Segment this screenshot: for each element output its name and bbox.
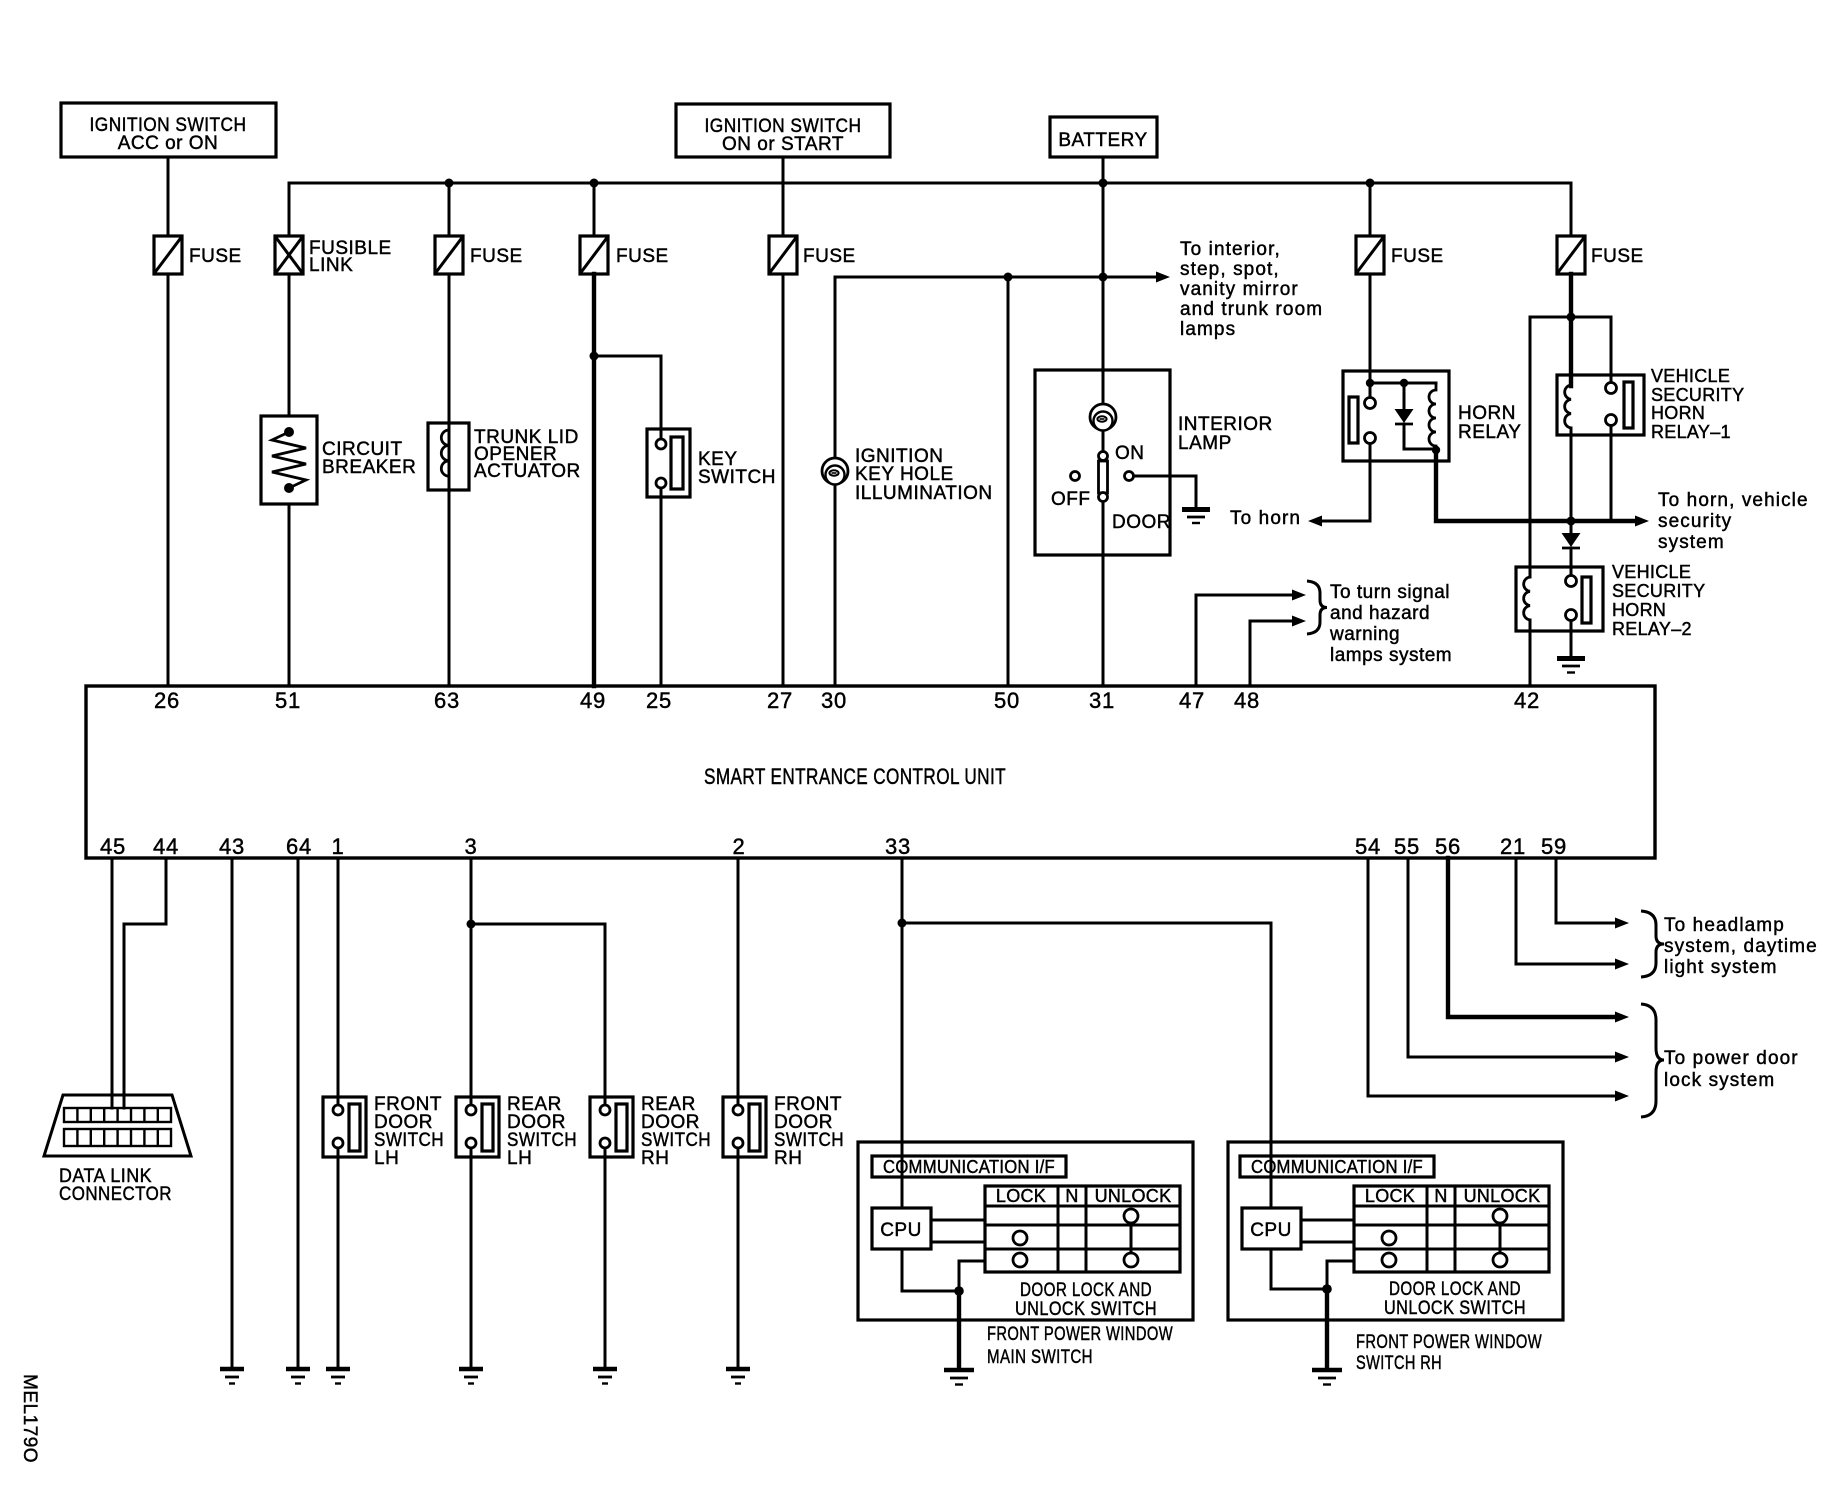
- door lock and unlock switch table (RH): [1354, 1186, 1549, 1319]
- svg-text:step, spot,: step, spot,: [1180, 259, 1280, 280]
- box FRONT POWER WINDOW SWITCH RH: [1228, 1142, 1563, 1320]
- svg-text:BREAKER: BREAKER: [322, 457, 416, 478]
- svg-text:CPU: CPU: [1250, 1220, 1292, 1241]
- svg-text:ON or START: ON or START: [722, 134, 844, 155]
- svg-text:FRONT POWER WINDOW: FRONT POWER WINDOW: [1356, 1332, 1542, 1353]
- wire battery to bus: [1102, 157, 1105, 183]
- fuse F2 (63): [435, 236, 523, 274]
- svg-text:47: 47: [1179, 688, 1205, 713]
- svg-text:45: 45: [100, 834, 126, 859]
- svg-text:27: 27: [767, 688, 793, 713]
- wire bus to horn relay fuse: [1369, 183, 1372, 236]
- svg-text:RELAY–2: RELAY–2: [1612, 619, 1692, 639]
- wire pin 56 to power door arrow: [1448, 858, 1616, 1017]
- svg-text:56: 56: [1435, 834, 1461, 859]
- front door switch LH: [323, 1094, 444, 1169]
- svg-text:HORN: HORN: [1458, 403, 1516, 424]
- wire fuse F3 to pin 49: [592, 274, 596, 686]
- brace headlamp: [1641, 911, 1664, 977]
- svg-text:48: 48: [1234, 688, 1260, 713]
- label to turn signal and hazard warning lamps system: [1329, 582, 1452, 666]
- svg-text:33: 33: [885, 834, 911, 859]
- wire horn relay coil to junction: [1436, 450, 1636, 521]
- svg-text:security: security: [1658, 511, 1732, 532]
- wire key switch to pin 25: [660, 488, 663, 686]
- wire pin 1 to front door switch LH: [337, 858, 340, 1105]
- svg-text:FUSE: FUSE: [803, 246, 856, 267]
- svg-text:ON: ON: [1115, 443, 1145, 464]
- svg-text:HORN: HORN: [1651, 403, 1705, 423]
- wire bus to fuse49: [593, 183, 596, 236]
- svg-text:LINK: LINK: [309, 255, 353, 276]
- wire front door switch RH to ground: [737, 1148, 740, 1368]
- label front power window main switch: [987, 1324, 1173, 1368]
- svg-text:DOOR LOCK AND: DOOR LOCK AND: [1389, 1279, 1521, 1300]
- label to interior step spot lamps: [1180, 239, 1323, 340]
- svg-text:RH: RH: [641, 1148, 669, 1169]
- wire bus corner to security fuse: [1570, 183, 1573, 236]
- wire fusible link to circuit breaker: [288, 274, 291, 416]
- svg-text:ILLUMINATION: ILLUMINATION: [855, 483, 993, 504]
- svg-text:MEL179O: MEL179O: [19, 1374, 40, 1463]
- svg-text:RH: RH: [774, 1148, 802, 1169]
- brace turn signal: [1307, 581, 1327, 634]
- svg-text:44: 44: [153, 834, 179, 859]
- arrow headlamp 2: [1615, 959, 1629, 970]
- CPU box (switch RH): [1242, 1208, 1301, 1249]
- svg-text:FUSE: FUSE: [1591, 246, 1644, 267]
- relay VEHICLE SECURITY HORN RELAY-1: [1557, 366, 1744, 442]
- svg-text:ACC or ON: ACC or ON: [118, 133, 219, 154]
- arrow To horn: [1308, 516, 1322, 527]
- svg-text:3: 3: [464, 834, 477, 859]
- wire tee y317: [1530, 316, 1611, 319]
- svg-text:26: 26: [154, 688, 180, 713]
- svg-text:lamps system: lamps system: [1330, 645, 1452, 666]
- arrow power door 2: [1615, 1052, 1629, 1063]
- relay VEHICLE SECURITY HORN RELAY-2: [1516, 562, 1705, 639]
- label front power window switch RH: [1356, 1332, 1542, 1374]
- svg-text:UNLOCK: UNLOCK: [1095, 1186, 1172, 1206]
- wire junction to table row3 (main): [959, 1261, 985, 1291]
- wire junction to table row3 (RH): [1327, 1261, 1354, 1289]
- svg-text:DOOR: DOOR: [1112, 512, 1171, 533]
- svg-text:warning: warning: [1329, 624, 1400, 645]
- svg-text:FRONT POWER WINDOW: FRONT POWER WINDOW: [987, 1324, 1173, 1345]
- svg-text:UNLOCK SWITCH: UNLOCK SWITCH: [1015, 1299, 1157, 1320]
- svg-text:LOCK: LOCK: [996, 1186, 1046, 1206]
- svg-text:RELAY: RELAY: [1458, 422, 1521, 443]
- wire CPU to switch table (main): [931, 1219, 985, 1222]
- fuse F3 (49): [580, 236, 669, 274]
- node bus/battery junction: [1099, 179, 1108, 188]
- fuse F1 (ACC): [154, 236, 242, 274]
- svg-text:system, daytime: system, daytime: [1664, 936, 1818, 957]
- svg-text:SWITCH RH: SWITCH RH: [1356, 1353, 1442, 1374]
- switch interior lamp (OFF/ON/DOOR): [1051, 443, 1171, 533]
- svg-text:SWITCH: SWITCH: [698, 467, 776, 488]
- svg-text:INTERIOR: INTERIOR: [1178, 414, 1273, 435]
- ground rear door switch RH: [593, 1369, 617, 1384]
- wire relay-2 coil to pin 42: [1529, 620, 1532, 686]
- wire bus to fusible link: [288, 183, 291, 236]
- box FRONT POWER WINDOW MAIN SWITCH: [858, 1142, 1193, 1320]
- relay HORN RELAY: [1343, 371, 1521, 461]
- wire rear door switch LH to ground: [470, 1148, 473, 1368]
- svg-text:25: 25: [646, 688, 672, 713]
- arrow power door 1: [1615, 1012, 1629, 1023]
- svg-text:lamps: lamps: [1180, 319, 1236, 340]
- svg-text:LAMP: LAMP: [1178, 433, 1232, 454]
- wire ON/START box to fuse: [782, 157, 785, 236]
- rear door switch RH: [590, 1094, 711, 1169]
- wire branch to rear door switch RH: [471, 924, 605, 1105]
- box IGNITION SWITCH ON or START: [676, 104, 890, 157]
- svg-text:lock system: lock system: [1664, 1070, 1775, 1091]
- wire pin 47 to turn signal arrow: [1196, 595, 1293, 686]
- svg-text:LH: LH: [507, 1148, 532, 1169]
- door lock and unlock switch table (main): [985, 1186, 1180, 1320]
- node y277/battery junction: [1099, 273, 1108, 282]
- svg-text:CONNECTOR: CONNECTOR: [59, 1184, 172, 1205]
- node bus/fuse63 junction: [445, 179, 454, 188]
- svg-text:2: 2: [732, 834, 745, 859]
- svg-text:N: N: [1434, 1186, 1447, 1206]
- svg-text:N: N: [1065, 1186, 1078, 1206]
- wire pin 64 to ground: [297, 858, 300, 1368]
- ground pin 43: [220, 1369, 244, 1384]
- CPU box (main switch): [872, 1208, 931, 1249]
- svg-text:30: 30: [821, 688, 847, 713]
- wire pin 45 to data link connector: [111, 858, 114, 1108]
- wire relay-1 contact to arrow: [1610, 426, 1613, 522]
- label to power door lock system: [1664, 1048, 1799, 1091]
- svg-text:FUSE: FUSE: [189, 246, 242, 267]
- wire tee to relay-2 coil: [1529, 317, 1532, 577]
- label to headlamp system: [1664, 915, 1818, 978]
- arrow turn signal 2: [1292, 616, 1306, 627]
- svg-text:50: 50: [994, 688, 1020, 713]
- box interior lamp: [1035, 370, 1170, 555]
- ground front power window switch RH: [1312, 1370, 1342, 1385]
- svg-text:63: 63: [434, 688, 460, 713]
- wire branch to switch RH CPU: [902, 923, 1271, 1208]
- node bus/fuse49 junction: [590, 179, 599, 188]
- wire rear door switch RH to ground: [604, 1148, 607, 1368]
- wire CPU to switch table (RH): [1301, 1219, 1354, 1222]
- wire fuse F2 to trunk actuator: [448, 274, 451, 423]
- wire pin 55 to power door arrow: [1408, 858, 1616, 1057]
- SMART ENTRANCE CONTROL UNIT box: [86, 686, 1655, 858]
- wire pin 3 to rear door switch LH: [470, 858, 473, 1105]
- wire tee to key switch: [594, 356, 661, 439]
- front door switch RH: [723, 1094, 844, 1169]
- svg-text:SECURITY: SECURITY: [1651, 385, 1744, 405]
- key switch: [647, 429, 776, 497]
- arrow to horn vehicle security system: [1635, 516, 1649, 527]
- svg-text:59: 59: [1541, 834, 1567, 859]
- wire from ACC box to fuse: [167, 157, 170, 236]
- svg-text:To turn signal: To turn signal: [1330, 582, 1450, 603]
- svg-text:and trunk room: and trunk room: [1180, 299, 1323, 320]
- box IGNITION SWITCH ACC or ON: [61, 103, 276, 157]
- svg-text:HORN: HORN: [1612, 600, 1666, 620]
- fuse F6 (vehicle security): [1557, 236, 1644, 274]
- svg-text:31: 31: [1089, 688, 1115, 713]
- node pin3 branch: [467, 920, 476, 929]
- svg-text:ACTUATOR: ACTUATOR: [474, 461, 581, 482]
- wire fuse F4 to pin 27: [782, 274, 785, 686]
- svg-text:DOOR LOCK AND: DOOR LOCK AND: [1020, 1280, 1152, 1301]
- svg-text:To horn, vehicle: To horn, vehicle: [1658, 490, 1809, 511]
- wire tee to relay-1 contact: [1610, 317, 1613, 383]
- wire horn relay contact to To horn arrow: [1322, 444, 1370, 522]
- node pin33 branch: [898, 919, 907, 928]
- wire interior lamp switch to ground: [1134, 476, 1197, 508]
- wire battery feed down to interior lamp and pin 31: [1102, 183, 1105, 686]
- svg-text:FUSE: FUSE: [470, 246, 523, 267]
- label to horn vehicle security system: [1658, 490, 1809, 553]
- wire trunk actuator to pin 63: [448, 490, 451, 686]
- wire fuse F1 to pin 26: [167, 274, 170, 686]
- diode D2 to relay-2: [1562, 521, 1581, 576]
- ground front power window main switch: [944, 1370, 974, 1385]
- svg-text:55: 55: [1394, 834, 1420, 859]
- node bus/horn-fuse junction: [1366, 179, 1375, 188]
- ground front door switch LH: [326, 1369, 350, 1384]
- lamp ignition key hole illumination: [822, 446, 993, 504]
- arrow headlamp 1: [1615, 918, 1629, 929]
- arrow to interior lamps: [1156, 272, 1170, 283]
- rear door switch LH: [456, 1094, 577, 1169]
- brace power door lock: [1641, 1004, 1664, 1117]
- arrow power door 3: [1615, 1091, 1629, 1102]
- wire fuse F5 to horn relay: [1369, 274, 1372, 383]
- arrow turn signal 1: [1292, 590, 1306, 601]
- wire key hole lamp to pin 30: [834, 486, 837, 686]
- fuse F5 (horn relay): [1356, 236, 1444, 274]
- wire pin 54 to power door arrow: [1368, 858, 1616, 1096]
- wire junction to ground (main): [957, 1291, 961, 1369]
- svg-text:42: 42: [1514, 688, 1540, 713]
- fuse F4 (27): [769, 236, 856, 274]
- svg-text:COMMUNICATION I/F: COMMUNICATION I/F: [883, 1157, 1055, 1177]
- svg-text:system: system: [1658, 532, 1725, 553]
- wire lamp feed branch y277: [835, 277, 1157, 486]
- wire relay-2 contact to ground: [1570, 621, 1573, 658]
- svg-text:RELAY–1: RELAY–1: [1651, 422, 1731, 442]
- wire pin 43 to ground: [231, 858, 234, 1368]
- wire fuse F6 to tee: [1569, 274, 1573, 317]
- wire pin 48 to turn signal arrow: [1250, 621, 1293, 686]
- wire pin 33 to main switch CPU: [901, 858, 904, 1208]
- wire pin 21 to headlamp arrow: [1516, 858, 1616, 964]
- wire circuit breaker to pin 51: [288, 504, 291, 686]
- svg-text:To headlamp: To headlamp: [1664, 915, 1785, 936]
- svg-text:64: 64: [286, 834, 312, 859]
- wire CPU to ground junction (main): [902, 1249, 959, 1291]
- svg-text:1: 1: [331, 834, 344, 859]
- svg-text:COMMUNICATION I/F: COMMUNICATION I/F: [1251, 1157, 1423, 1177]
- wire front door switch LH to ground: [337, 1148, 340, 1368]
- wire battery bus: [289, 182, 1571, 185]
- wire pin 2 to front door switch RH: [737, 858, 740, 1105]
- svg-text:KEY HOLE: KEY HOLE: [855, 464, 954, 485]
- ground rear door switch LH: [459, 1369, 483, 1384]
- node tee junction: [1567, 313, 1576, 322]
- svg-text:To interior,: To interior,: [1180, 239, 1281, 260]
- svg-text:SMART ENTRANCE CONTROL UNIT: SMART ENTRANCE CONTROL UNIT: [704, 764, 1006, 789]
- svg-text:To horn: To horn: [1230, 508, 1301, 529]
- node y277/pin50 junction: [1004, 273, 1013, 282]
- wire pin 44 to data link connector: [124, 858, 166, 1108]
- wire to pin 50: [1007, 277, 1010, 686]
- communication I/F box (main switch): [872, 1156, 1066, 1177]
- svg-text:MAIN SWITCH: MAIN SWITCH: [987, 1347, 1093, 1368]
- svg-text:51: 51: [275, 688, 301, 713]
- node key switch tee: [590, 352, 599, 361]
- wire bus to fuse63: [448, 183, 451, 236]
- svg-text:light system: light system: [1664, 957, 1778, 978]
- svg-text:OFF: OFF: [1051, 489, 1091, 510]
- node coil junction at (1571,521): [1567, 517, 1576, 526]
- node ground junction (main): [954, 1286, 964, 1296]
- svg-text:UNLOCK: UNLOCK: [1464, 1186, 1541, 1206]
- circuit breaker: [261, 416, 416, 504]
- svg-text:BATTERY: BATTERY: [1058, 130, 1147, 151]
- svg-text:To power door: To power door: [1664, 1048, 1799, 1069]
- lamp interior lamp bulb: [1090, 404, 1273, 454]
- svg-text:54: 54: [1355, 834, 1381, 859]
- node ground junction (RH): [1322, 1284, 1332, 1294]
- svg-text:43: 43: [219, 834, 245, 859]
- wire tee to relay-1 coil: [1569, 317, 1573, 386]
- data link connector: [44, 1095, 191, 1205]
- svg-text:vanity mirror: vanity mirror: [1180, 279, 1299, 300]
- fusible link: [275, 236, 392, 276]
- svg-text:LH: LH: [374, 1148, 399, 1169]
- ground front door switch RH: [726, 1369, 750, 1384]
- svg-text:FUSE: FUSE: [1391, 246, 1444, 267]
- svg-text:VEHICLE: VEHICLE: [1651, 366, 1730, 386]
- svg-text:21: 21: [1500, 834, 1526, 859]
- svg-text:and hazard: and hazard: [1330, 603, 1430, 624]
- ground pin 64: [286, 1369, 310, 1384]
- wire CPU to ground junction (RH): [1271, 1249, 1327, 1289]
- svg-text:CPU: CPU: [880, 1220, 922, 1241]
- svg-text:FUSE: FUSE: [616, 246, 669, 267]
- svg-text:VEHICLE: VEHICLE: [1612, 562, 1691, 582]
- box BATTERY: [1050, 117, 1157, 157]
- svg-text:SECURITY: SECURITY: [1612, 581, 1705, 601]
- wire junction to ground (RH): [1325, 1289, 1329, 1369]
- communication I/F box (switch RH): [1240, 1156, 1434, 1177]
- ground interior lamp: [1182, 510, 1210, 524]
- trunk lid opener actuator: [428, 423, 581, 490]
- svg-text:49: 49: [580, 688, 606, 713]
- wire pin 59 to headlamp arrow: [1556, 858, 1616, 923]
- svg-text:UNLOCK SWITCH: UNLOCK SWITCH: [1384, 1298, 1526, 1319]
- ground relay-2: [1557, 659, 1585, 673]
- svg-text:LOCK: LOCK: [1365, 1186, 1415, 1206]
- wire relay-1 coil to junction: [1570, 428, 1573, 521]
